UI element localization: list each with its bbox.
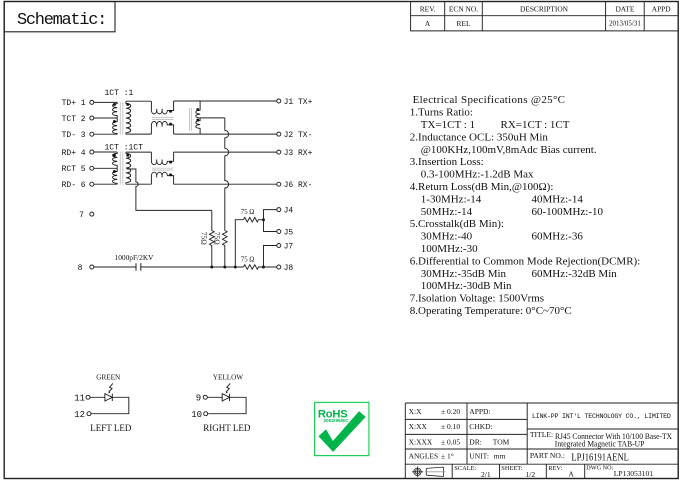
node junction R2 bottom bbox=[223, 266, 226, 269]
svg-text:0.3-100MHz:-1.2dB Max: 0.3-100MHz:-1.2dB Max bbox=[421, 169, 534, 181]
svg-text:GREEN: GREEN bbox=[96, 374, 121, 382]
transformer T4 secondary winding with center tap bbox=[126, 152, 131, 184]
wire pin2 to T1 center tap bbox=[94, 117, 118, 119]
svg-text:TOM: TOM bbox=[493, 437, 510, 446]
svg-text:DESCRIPTION: DESCRIPTION bbox=[520, 5, 569, 14]
svg-text:5.Crosstalk(dB Min):: 5.Crosstalk(dB Min): bbox=[410, 218, 504, 230]
pin 9 bbox=[196, 393, 208, 403]
svg-text:RD+ 4: RD+ 4 bbox=[62, 149, 86, 158]
svg-text:@100KHz,100mV,8mAdc Bias curre: @100KHz,100mV,8mAdc Bias current. bbox=[421, 144, 597, 156]
svg-text:75 Ω: 75 Ω bbox=[241, 257, 255, 264]
pin 10 bbox=[191, 410, 208, 420]
pin J6 RX- bbox=[277, 181, 313, 190]
svg-text:± 0.10: ± 0.10 bbox=[441, 422, 460, 431]
svg-text:± 1°: ± 1° bbox=[441, 452, 454, 461]
svg-text:6.Differential to Common Mode: 6.Differential to Common Mode Rejection(… bbox=[410, 255, 640, 267]
svg-text:1000pF/2KV: 1000pF/2KV bbox=[115, 253, 155, 262]
pin 7 NC bbox=[79, 211, 94, 220]
svg-text:J6 RX-: J6 RX- bbox=[284, 181, 313, 190]
wire to J4 bbox=[264, 210, 277, 220]
svg-text:RX=1CT : 1CT: RX=1CT : 1CT bbox=[501, 119, 570, 131]
choke T5 core bbox=[152, 168, 173, 170]
svg-text:Integrated Magnetic TAB-UP: Integrated Magnetic TAB-UP bbox=[555, 440, 645, 449]
wire tap1 vertical with hops bbox=[225, 118, 229, 231]
svg-text:8: 8 bbox=[78, 264, 83, 273]
node junction feeder bbox=[234, 266, 237, 269]
transformer T4 core bbox=[120, 152, 123, 185]
pin 12 bbox=[74, 410, 91, 420]
svg-text:LEFT LED: LEFT LED bbox=[90, 423, 132, 433]
svg-text:YELLOW: YELLOW bbox=[213, 374, 244, 382]
pin 4 RD+ bbox=[62, 149, 94, 158]
LED D1 green bbox=[90, 383, 129, 413]
pin J5 bbox=[277, 228, 294, 237]
svg-text:TD- 3: TD- 3 bbox=[62, 131, 86, 140]
svg-text:APPD: APPD bbox=[652, 5, 672, 14]
wire T4 secondary top to choke T5 bbox=[126, 151, 151, 153]
wire to J7 bbox=[264, 246, 277, 268]
svg-text:REV:: REV: bbox=[548, 465, 562, 472]
title text bbox=[530, 430, 672, 463]
svg-text:7.Isolation Voltage: 1500Vrms: 7.Isolation Voltage: 1500Vrms bbox=[410, 293, 544, 305]
svg-text:LP13053101: LP13053101 bbox=[614, 469, 653, 478]
wire T4 center tap with hop bbox=[127, 169, 212, 210]
svg-text:CHKD:: CHKD: bbox=[469, 422, 492, 431]
resistor R4 75ohm to J8 bbox=[241, 257, 277, 270]
svg-text:30MHz:-40: 30MHz:-40 bbox=[421, 231, 473, 243]
svg-text:DATE: DATE bbox=[615, 5, 634, 14]
svg-text:2002/95/EC: 2002/95/EC bbox=[323, 418, 349, 424]
svg-text:LINK-PP INT'L TECHNOLOGY CO.,: LINK-PP INT'L TECHNOLOGY CO., LIMITED bbox=[532, 413, 671, 420]
svg-text:APPD:: APPD: bbox=[469, 407, 490, 416]
svg-text:75Ω: 75Ω bbox=[213, 232, 222, 245]
svg-text:PART NO.:: PART NO.: bbox=[530, 451, 565, 460]
RoHS logo bbox=[315, 402, 369, 455]
wire rail to J2 bbox=[174, 133, 277, 135]
svg-text:UNIT:: UNIT: bbox=[469, 452, 489, 461]
wire pin5 to T4 center tap bbox=[94, 167, 118, 169]
svg-text:LPJ16191AENL: LPJ16191AENL bbox=[571, 452, 629, 464]
title block frame bbox=[405, 403, 678, 479]
pin J8 bbox=[277, 264, 294, 273]
svg-text:4.Return Loss(dB Min,@100Ω):: 4.Return Loss(dB Min,@100Ω): bbox=[410, 181, 554, 193]
label RIGHT LED bbox=[203, 423, 251, 433]
pin 8 bbox=[78, 264, 94, 273]
svg-text:± 0.05: ± 0.05 bbox=[441, 437, 460, 446]
svg-text:TCT 2: TCT 2 bbox=[62, 115, 86, 124]
svg-text:J7: J7 bbox=[284, 242, 294, 251]
svg-text:TX=1CT : 1: TX=1CT : 1 bbox=[421, 119, 475, 131]
svg-text:RD- 6: RD- 6 bbox=[62, 181, 86, 190]
third angle projection symbol bbox=[412, 467, 446, 478]
svg-text:2.Inductance OCL: 350uH Min: 2.Inductance OCL: 350uH Min bbox=[410, 131, 549, 143]
common-mode choke T5 bottom winding bbox=[151, 172, 173, 184]
svg-text:J1 TX+: J1 TX+ bbox=[284, 98, 313, 107]
autotransformer T3 core bbox=[190, 108, 192, 131]
transformer T4 primary winding bbox=[113, 152, 118, 184]
label 1CT:1 ratio T1 bbox=[105, 89, 134, 98]
company name LINK-PP bbox=[532, 413, 671, 420]
svg-text:SCALE:: SCALE: bbox=[454, 465, 476, 472]
svg-text:60-100MHz:-10: 60-100MHz:-10 bbox=[532, 206, 604, 218]
svg-text:TITLE:: TITLE: bbox=[530, 430, 553, 439]
svg-text:ECN NO.: ECN NO. bbox=[449, 5, 478, 14]
capacitor C1 1000pF/2KV bbox=[115, 253, 155, 271]
svg-text:100MHz:-30: 100MHz:-30 bbox=[421, 243, 478, 255]
wire feeder vertical bbox=[235, 220, 243, 267]
transformer T1 secondary winding bbox=[126, 101, 131, 134]
svg-text:RCT 5: RCT 5 bbox=[62, 165, 86, 174]
node junction J7 branch bbox=[262, 266, 265, 269]
title block tolerance texts bbox=[409, 407, 654, 479]
revision table bbox=[411, 2, 679, 31]
wire pin3 to T1 primary bbox=[94, 133, 118, 135]
svg-text:30MHz:-35dB Min: 30MHz:-35dB Min bbox=[421, 268, 507, 280]
common-mode choke T5 top winding bbox=[151, 152, 173, 165]
wire T1 secondary top to choke T2 bbox=[126, 100, 151, 102]
wire pin8 to capacitor C1 bbox=[94, 266, 136, 268]
svg-text:10: 10 bbox=[191, 410, 202, 420]
wire T4 secondary bottom to choke T5 bbox=[126, 183, 151, 185]
svg-text:2/1: 2/1 bbox=[481, 470, 491, 479]
svg-text:J3 RX+: J3 RX+ bbox=[284, 149, 313, 158]
svg-text:11: 11 bbox=[74, 393, 85, 403]
electrical specifications text bbox=[410, 94, 640, 317]
svg-text:1-30MHz:-14: 1-30MHz:-14 bbox=[421, 193, 482, 205]
wire rail to J3 bbox=[174, 151, 277, 153]
svg-text:75 Ω: 75 Ω bbox=[241, 209, 255, 216]
svg-text:Schematic:: Schematic: bbox=[17, 11, 106, 30]
svg-text:100MHz:-30dB Min: 100MHz:-30dB Min bbox=[421, 280, 512, 292]
svg-text:1CT :1: 1CT :1 bbox=[105, 89, 134, 98]
svg-text:1/2: 1/2 bbox=[526, 470, 536, 479]
svg-text:DR:: DR: bbox=[469, 437, 482, 446]
svg-text:60MHz:-32dB Min: 60MHz:-32dB Min bbox=[532, 268, 618, 280]
svg-text:SHEET:: SHEET: bbox=[501, 465, 523, 472]
svg-text:X:XXX: X:XXX bbox=[409, 437, 433, 446]
LED D2 yellow bbox=[207, 383, 246, 413]
svg-text:60MHz:-36: 60MHz:-36 bbox=[532, 231, 584, 243]
svg-text:J8: J8 bbox=[284, 264, 294, 273]
svg-text:J2 TX-: J2 TX- bbox=[284, 131, 313, 140]
pin J2 TX- bbox=[277, 131, 313, 140]
pin 11 bbox=[74, 393, 90, 403]
svg-text:J4: J4 bbox=[284, 207, 294, 216]
svg-text:50MHz:-14: 50MHz:-14 bbox=[421, 206, 473, 218]
svg-text:± 0.20: ± 0.20 bbox=[441, 407, 460, 416]
transformer T1 core bbox=[120, 102, 123, 135]
wire rail to J1 bbox=[174, 100, 277, 102]
label YELLOW bbox=[213, 374, 244, 382]
common-mode choke T2 bottom winding bbox=[151, 121, 173, 134]
svg-text:X:XX: X:XX bbox=[409, 422, 428, 431]
svg-text:A: A bbox=[569, 470, 575, 478]
svg-text:75Ω: 75Ω bbox=[200, 232, 209, 245]
svg-text:7: 7 bbox=[79, 211, 84, 220]
svg-text:mm: mm bbox=[494, 452, 506, 461]
svg-text:RIGHT LED: RIGHT LED bbox=[203, 423, 251, 433]
pin J7 bbox=[277, 242, 294, 251]
title box Schematic bbox=[4, 2, 115, 32]
wire capacitor to ground rail bbox=[141, 266, 244, 268]
pin 5 RCT bbox=[62, 165, 94, 174]
wire rail to J6 bbox=[174, 183, 277, 185]
common-mode choke T2 top winding bbox=[151, 101, 173, 114]
node junction R1 bottom bbox=[210, 266, 213, 269]
svg-text:REL: REL bbox=[457, 19, 471, 28]
pin J1 TX+ bbox=[277, 98, 313, 107]
svg-text:X:X: X:X bbox=[409, 407, 423, 416]
svg-text:ANGLES: ANGLES bbox=[409, 452, 439, 461]
svg-text:A: A bbox=[425, 19, 431, 28]
label LEFT LED bbox=[90, 423, 132, 433]
svg-text:TD+ 1: TD+ 1 bbox=[62, 99, 86, 108]
label 1CT:1CT ratio T4 bbox=[105, 144, 144, 153]
autotransformer T3 winding bbox=[196, 101, 200, 134]
pin J4 bbox=[277, 207, 294, 216]
transformer T1 primary winding bbox=[113, 102, 118, 134]
svg-text:9: 9 bbox=[196, 393, 201, 403]
wire pin4 to T4 primary bbox=[94, 151, 118, 153]
svg-text:1.Turns Ratio:: 1.Turns Ratio: bbox=[410, 107, 473, 119]
node junction J4/J5 bbox=[262, 218, 265, 221]
svg-text:12: 12 bbox=[74, 410, 85, 420]
svg-text:1CT :1CT: 1CT :1CT bbox=[105, 144, 144, 153]
choke T2 core bbox=[152, 117, 173, 119]
resistor R1 75ohm vertical bbox=[200, 210, 215, 267]
wire T1 secondary bottom to choke T2 bbox=[126, 133, 151, 135]
svg-text:DWG NO:: DWG NO: bbox=[586, 465, 613, 472]
svg-text:Electrical Specifications @25°: Electrical Specifications @25°C bbox=[413, 94, 566, 106]
svg-text:40MHz:-14: 40MHz:-14 bbox=[532, 193, 584, 205]
wire to J5 bbox=[264, 220, 277, 232]
svg-text:2013/05/31: 2013/05/31 bbox=[609, 19, 641, 27]
label GREEN bbox=[96, 374, 121, 382]
pin 2 TCT bbox=[62, 115, 94, 124]
pin 6 RD- bbox=[62, 181, 94, 190]
pin 3 TD- bbox=[62, 131, 94, 140]
wire pin6 to T4 primary bbox=[94, 183, 118, 185]
svg-text:8.Operating Temperature: 0°C~7: 8.Operating Temperature: 0°C~70°C bbox=[410, 305, 572, 317]
resistor R2 75ohm vertical bbox=[213, 231, 228, 268]
svg-text:3.Insertion Loss:: 3.Insertion Loss: bbox=[410, 156, 484, 168]
svg-text:REV.: REV. bbox=[420, 5, 436, 14]
wire pin1 to T1 primary bbox=[94, 101, 118, 103]
pin J3 RX+ bbox=[277, 149, 313, 158]
resistor R3 75ohm to J4 J5 bbox=[241, 209, 264, 222]
wire T3 center tap bbox=[200, 117, 225, 119]
svg-text:J5: J5 bbox=[284, 228, 294, 237]
pin 1 TD+ bbox=[62, 99, 94, 108]
